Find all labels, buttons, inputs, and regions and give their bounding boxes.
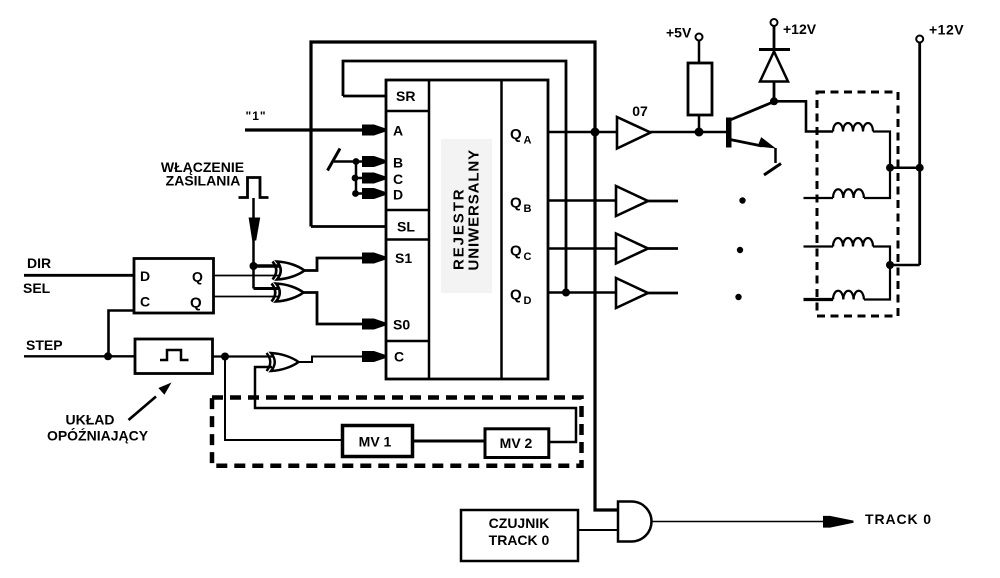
svg-text:Q: Q (192, 269, 203, 285)
and gate G4 (618, 502, 652, 542)
xor gate G1 (S1) (273, 262, 305, 280)
wire stub to C pin (356, 177, 366, 180)
wire AND out to TRACK 0 (652, 521, 824, 523)
junction QD feedback dot (562, 289, 570, 297)
buffer U3 QA (617, 117, 651, 149)
terminal +12V circle right (916, 36, 923, 43)
svg-text:07: 07 (632, 103, 648, 119)
wire G2 out to S0 pin (302, 293, 366, 325)
wire pair2 to rail (890, 264, 920, 267)
diode D1 cathode bar (759, 48, 790, 51)
buffer U4 QB (616, 186, 648, 216)
svg-text:Q: Q (510, 243, 522, 260)
junction QA feedback dot (591, 128, 600, 137)
wire diode to collector node (773, 82, 776, 102)
svg-text:STEP: STEP (26, 337, 63, 353)
svg-text:MV 2: MV 2 (500, 435, 533, 451)
buffer U5 QC (616, 234, 648, 264)
svg-text:C: C (394, 349, 404, 365)
arrow UKLAD to delay box (129, 397, 157, 421)
svg-text:S1: S1 (395, 250, 412, 266)
svg-text:TRACK 0: TRACK 0 (865, 511, 932, 527)
svg-text:SEL: SEL (23, 280, 51, 296)
emitter cut tick (764, 164, 781, 176)
svg-text:Q: Q (510, 287, 522, 304)
ellipsis dot 1 (739, 197, 745, 203)
svg-text:OPÓŹNIAJĄCY: OPÓŹNIAJĄCY (47, 427, 149, 444)
wire G3 second input from MV2 loop (255, 367, 576, 442)
arrow into D pin (362, 188, 386, 199)
wire pulse node down to XOR2 (252, 266, 255, 289)
wire L4 left stub (804, 298, 834, 301)
svg-text:D: D (524, 295, 532, 307)
svg-text:SR: SR (396, 88, 415, 104)
junction rail dot (916, 164, 924, 172)
wire +12V to diode (773, 26, 776, 50)
wire L3 left stub (804, 245, 834, 247)
transistor Q1 emitter arrow (758, 137, 777, 148)
register divider left column (428, 80, 431, 379)
terminal +12V circle left (771, 19, 778, 26)
transistor Q1 base bar (726, 118, 732, 148)
wire STEP line (24, 355, 136, 357)
wire MV1 to MV2 (413, 440, 486, 443)
ellipsis dot 3 (735, 294, 741, 300)
ellipsis dot 2 (737, 247, 743, 253)
wire switch to BCD node (334, 160, 366, 163)
register divider right column (500, 80, 503, 379)
register divider under SR (386, 110, 429, 113)
wire QD to buffer (548, 291, 617, 294)
buffer U6 QD (616, 278, 648, 308)
arrow into A pin (362, 125, 386, 136)
svg-text:S0: S0 (393, 317, 410, 333)
wire collector node to coil1 (774, 101, 833, 131)
wire G3 out to C pin (297, 357, 366, 363)
svg-text:+12V: +12V (783, 21, 817, 37)
arrow into S1 pin (362, 253, 386, 264)
delay box (monostable) (135, 339, 213, 374)
wire QC buffer out (648, 247, 678, 250)
wire pulse down line (252, 198, 255, 266)
junction collector node dot (770, 97, 778, 105)
svg-text:SL: SL (397, 219, 415, 235)
svg-text:C: C (140, 294, 150, 310)
terminal +5V circle (696, 34, 703, 41)
wire delay out to XOR3 (213, 355, 274, 357)
svg-text:TRACK 0: TRACK 0 (489, 532, 550, 548)
junction delay out dot (221, 353, 229, 361)
wire +12V rail (918, 43, 921, 266)
wire QB buffer out (648, 200, 678, 203)
junction C dot (352, 175, 359, 182)
arrow down on pulse line (249, 218, 261, 241)
box MV1 (343, 426, 413, 457)
box MV2 (485, 429, 549, 458)
register title backdrop (441, 139, 492, 293)
register divider above SL (386, 209, 429, 212)
svg-text:UNIWERSALNY: UNIWERSALNY (466, 149, 483, 271)
wire Qbar output to XOR2 (214, 296, 279, 298)
wire STEP junction to FF clock (109, 311, 135, 357)
wire QC to buffer (548, 247, 617, 250)
wire QB to buffer (548, 199, 617, 202)
svg-text:DIR: DIR (27, 255, 51, 271)
wire SL feedback horizontal (311, 225, 386, 228)
wire resistor to base line (698, 115, 701, 132)
inductor L2 (833, 189, 864, 198)
junction D dot (352, 190, 359, 197)
transistor Q1 emitter (730, 140, 762, 147)
dashed box delay network (212, 398, 582, 466)
svg-text:Q: Q (190, 295, 202, 312)
wire stub to D pin (356, 192, 366, 195)
register divider below SL (386, 238, 429, 241)
svg-text:B: B (393, 155, 403, 171)
wire G1 out to S1 pin (303, 258, 366, 271)
junction pair1 dot (886, 164, 894, 172)
wire L3 right lead (873, 247, 890, 266)
pulse symbol power-on (239, 178, 269, 198)
junction STEP node dot (104, 352, 112, 360)
register divider above C (386, 340, 429, 343)
wire emitter down (774, 148, 777, 163)
svg-text:D: D (393, 187, 403, 203)
pulse symbol in delay box (160, 350, 189, 360)
svg-text:ZASILANIA: ZASILANIA (166, 173, 241, 189)
svg-text:C: C (393, 171, 403, 187)
wire "1" to A pin (245, 128, 366, 131)
wire inner feedback loop QD to SR (343, 61, 566, 293)
junction base node dot (695, 128, 704, 137)
resistor R1 (688, 63, 712, 115)
diode D1 triangle (760, 52, 788, 82)
arrow TRACK 0 (823, 516, 854, 528)
wire outer feedback loop QA to SL (311, 42, 618, 510)
svg-text:UKŁAD: UKŁAD (66, 412, 115, 428)
wire L2 left stub (804, 197, 834, 199)
xor gate G2 (S0) (272, 284, 304, 302)
wire L1 right lead (873, 132, 890, 168)
wire SR feedback horizontal (343, 95, 386, 98)
wire QD buffer out (648, 292, 678, 295)
svg-text:"1": "1" (246, 109, 267, 123)
wire L2 right lead (864, 168, 890, 198)
svg-text:A: A (524, 135, 532, 147)
wire QA to buffer (548, 131, 618, 134)
svg-text:Q: Q (510, 195, 522, 212)
arrow into C pin (data) (362, 173, 386, 184)
wire BCD vertical (355, 162, 358, 194)
svg-text:D: D (140, 268, 150, 284)
junction pair2 dot (886, 261, 894, 269)
wire to XOR2 top input (254, 287, 279, 290)
wire junction down to MV1 (225, 357, 343, 441)
wire L4 right lead (864, 265, 890, 300)
wire DIR to D input (24, 274, 134, 277)
wire CZUJNIK to AND gate (578, 529, 620, 531)
arrow into S0 pin (362, 319, 386, 330)
wire +5V to resistor (698, 41, 701, 64)
svg-text:B: B (524, 203, 532, 215)
junction pulse node dot (250, 262, 258, 270)
switch symbol diagonal (328, 149, 341, 171)
dashed box motor windings (817, 92, 898, 316)
inductor L3 (833, 238, 873, 247)
inductor L4 (833, 291, 864, 300)
wire pulse to XOR1 input (254, 264, 280, 268)
register U1 box (386, 80, 548, 379)
arrow into B pin (362, 156, 386, 167)
svg-text:C: C (524, 251, 532, 263)
wire QA buffer out to base (650, 131, 727, 134)
flip-flop U2 box (134, 259, 214, 314)
svg-text:+12V: +12V (929, 22, 964, 38)
svg-text:+5V: +5V (666, 25, 692, 41)
wire Q output to XOR1 (214, 275, 280, 277)
inductor L1 (833, 123, 873, 132)
svg-text:MV 1: MV 1 (359, 434, 392, 450)
arrow into C pin (clock) (362, 351, 386, 362)
svg-text:Q: Q (510, 126, 522, 143)
box CZUJNIK TRACK 0 (461, 510, 578, 561)
junction B dot (353, 158, 360, 165)
xor gate G3 (C) (267, 353, 299, 371)
svg-text:CZUJNIK: CZUJNIK (489, 515, 550, 531)
transistor Q1 collector (730, 102, 773, 120)
svg-text:A: A (393, 123, 403, 139)
wire pair1 to rail (890, 166, 920, 169)
